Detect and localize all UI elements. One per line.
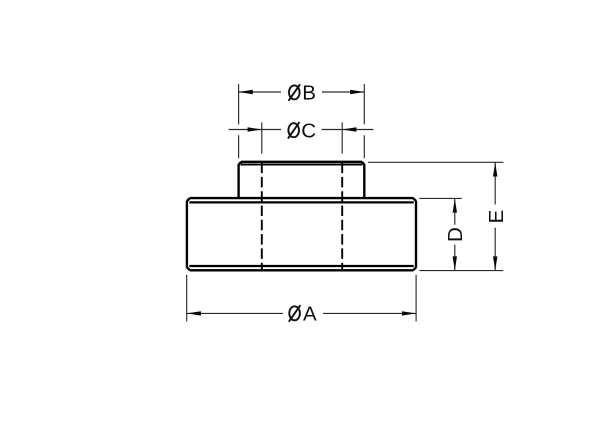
boss chamfer line — [241, 163, 363, 165]
dimension E extension line top — [368, 161, 504, 163]
label diameter B — [289, 82, 316, 105]
dimension B extension line right — [363, 84, 365, 158]
dimension C arrow right (outside pointing left) — [342, 127, 356, 131]
dimension E arrow bottom — [493, 256, 497, 270]
dimension B extension line left — [238, 84, 240, 158]
dimension B arrow left — [239, 90, 253, 94]
dimension D arrow bottom — [453, 256, 457, 270]
dimension C line — [229, 129, 374, 131]
dimension C arrow left (outside pointing right) — [248, 127, 262, 131]
dimension C extension line left — [261, 122, 263, 153]
dimension A arrow left — [187, 311, 201, 315]
dimension D line — [454, 198, 456, 270]
dimension B line — [239, 91, 365, 93]
svg-text:B: B — [302, 82, 316, 105]
hidden hole line right (dashed) — [341, 163, 343, 270]
label diameter A — [289, 302, 317, 325]
dimension A arrow right — [402, 311, 416, 315]
svg-text:D: D — [444, 227, 467, 242]
dimension E line — [494, 162, 496, 270]
dimension A line — [187, 312, 416, 314]
svg-text:A: A — [303, 302, 317, 325]
dimension C extension line right — [341, 122, 343, 153]
dimension D extension line top — [419, 197, 461, 199]
svg-text:E: E — [485, 210, 508, 224]
svg-text:C: C — [301, 119, 316, 142]
flange body chamfer lines — [189, 202, 413, 266]
label diameter C — [288, 119, 316, 142]
shared bottom extension line for D and E — [419, 270, 503, 272]
dimension A extension line right — [415, 275, 417, 322]
dimension E arrow top — [493, 162, 497, 176]
dimension A extension line left — [186, 275, 188, 322]
boss (top cylinder) outline — [239, 162, 365, 198]
flange body outline — [187, 198, 416, 270]
dimension D arrow top — [453, 198, 457, 212]
dimension B arrow right — [350, 90, 364, 94]
hidden hole line left (dashed) — [261, 163, 263, 270]
